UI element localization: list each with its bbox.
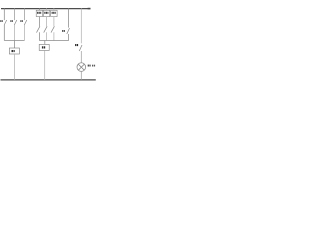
wire middle joining rail	[39, 40, 68, 42]
wire stub box X1	[38, 8, 40, 10]
coil K2	[39, 44, 49, 50]
label S2	[10, 20, 13, 22]
wire lamp branch upper	[80, 8, 82, 43]
coil K1	[9, 48, 19, 54]
wire branch M3 lower	[53, 32, 55, 40]
lamp H1	[77, 63, 86, 72]
wire lamp to bottom bus	[80, 71, 82, 80]
wire K1 aux branch lower	[68, 34, 70, 41]
contact K1 aux	[67, 28, 70, 34]
wire top bus L1	[1, 8, 91, 10]
contact M3	[51, 26, 54, 32]
wire coil K2 to bottom bus	[44, 50, 46, 80]
terminal box X3	[51, 10, 57, 16]
wire branch M2 lower	[46, 32, 48, 40]
wire branch S2 lower	[13, 25, 15, 41]
wire branch M1 lower	[38, 32, 40, 40]
wire branch M3 upper	[53, 17, 55, 27]
label K1	[62, 30, 65, 32]
wire drop to coil K2	[44, 41, 46, 45]
node wire-number mark on top bus	[88, 8, 91, 10]
label H1	[88, 65, 95, 67]
label S3	[20, 20, 23, 22]
wire left joining rail	[4, 40, 24, 42]
contact M1	[37, 26, 40, 32]
terminal box X1	[36, 10, 42, 16]
contact S3	[24, 20, 27, 25]
contact S2	[14, 20, 16, 25]
wire branch M1 upper	[38, 17, 40, 27]
wire branch S3 lower	[23, 25, 25, 41]
contact M2	[44, 26, 47, 32]
wire branch S3 upper	[23, 8, 25, 20]
contact K2 aux	[79, 45, 82, 51]
wire bottom bus N	[1, 79, 96, 81]
contact S1	[4, 20, 7, 25]
label S1	[0, 20, 3, 22]
label K2	[75, 44, 78, 46]
wire branch S2 upper	[13, 8, 15, 20]
wire K1 aux branch upper	[68, 8, 70, 27]
wire branch M2 upper	[46, 17, 48, 27]
terminal box X2	[43, 10, 49, 16]
wire coil K1 to bottom bus	[13, 54, 15, 80]
wire contact to lamp	[80, 51, 82, 63]
wire stub box X2	[46, 8, 48, 10]
wire stub box X3	[53, 8, 55, 10]
wire branch S1 lower	[3, 25, 5, 41]
wire drop to coil K1	[13, 41, 15, 49]
wire branch S1 upper	[3, 8, 5, 20]
